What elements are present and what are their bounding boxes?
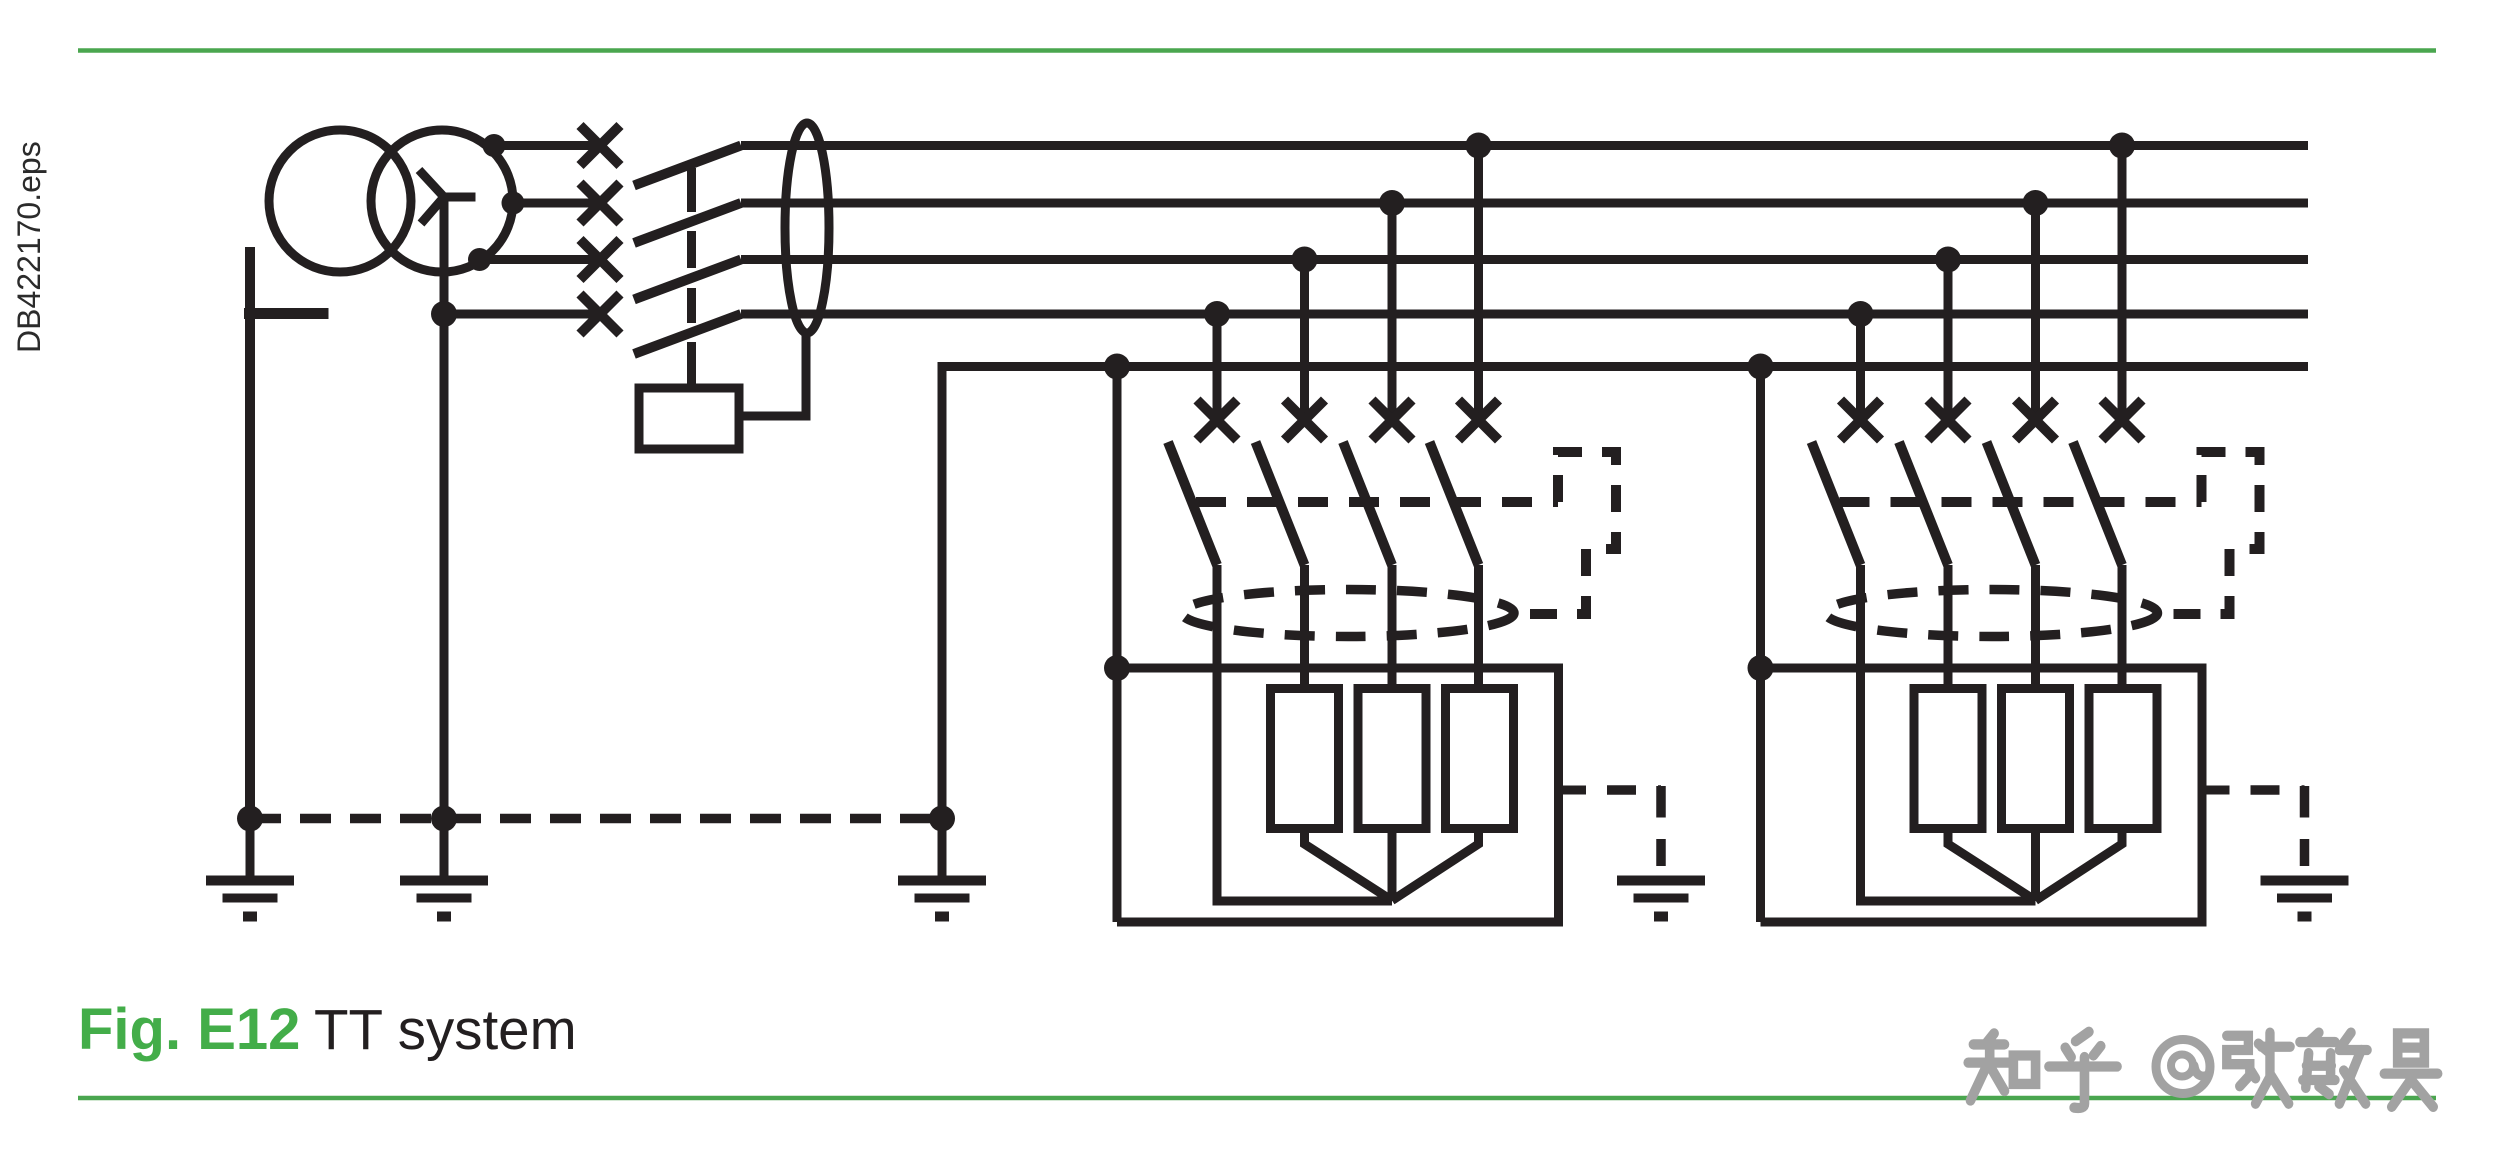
dashed earth lead horizontal xyxy=(1607,785,1661,795)
RCD toroid (dashed ellipse) xyxy=(1182,590,1514,637)
switch Q1 blade L3 xyxy=(634,260,741,300)
watermark glyph min xyxy=(2300,1033,2367,1104)
switch Q1 blade L2 xyxy=(634,203,741,243)
ground electrode PE xyxy=(898,819,986,917)
wire frame to earth stub xyxy=(1559,786,1587,795)
switch Q1 mechanical linkage xyxy=(687,168,696,388)
circuit breaker blade L1 xyxy=(1430,442,1479,565)
terminal dot phase L3 xyxy=(468,248,491,271)
wire N through RCD to load xyxy=(1217,565,1392,901)
junction dot tap L3 xyxy=(1292,247,1318,273)
load element R2 xyxy=(1358,689,1426,829)
svg-text:Fig. E12: Fig. E12 xyxy=(78,997,300,1062)
breaker terminal cross L2 xyxy=(1372,400,1412,440)
junction dot earth link left xyxy=(237,806,263,832)
wire distribution line L1 xyxy=(741,141,2308,150)
load element R3 xyxy=(1446,689,1514,829)
wire PE conductor xyxy=(942,367,2308,819)
green bottom rule xyxy=(78,1096,2436,1101)
ground electrode load xyxy=(1617,881,1705,917)
terminal dot phase L1 xyxy=(483,134,506,157)
wire drop L3 xyxy=(1300,260,1309,421)
earth terminal bar xyxy=(244,308,329,319)
junction dot PE to appliance frame xyxy=(1104,655,1130,681)
neutral star-point conductor xyxy=(440,197,449,819)
watermark glyph zhi xyxy=(1968,1033,2035,1100)
breaker terminal cross N xyxy=(1197,400,1237,440)
junction dot earth link neutral xyxy=(431,806,457,832)
circuit breaker blade L3 xyxy=(1256,442,1305,565)
cable / CT ellipse xyxy=(785,123,829,333)
dashed link trip to RCD toroid xyxy=(1521,452,1616,614)
link cross X L2 xyxy=(580,183,620,223)
terminal dot phase L2 xyxy=(502,192,525,215)
switch operating device box xyxy=(639,388,739,449)
breaker terminal cross L1 xyxy=(1459,400,1499,440)
ground electrode substation xyxy=(206,819,294,917)
wire L1 (transformer to link) xyxy=(494,141,600,150)
ground electrode neutral xyxy=(400,819,488,917)
junction dot tap L1 xyxy=(1466,133,1492,159)
switch Q1 blade L1 xyxy=(634,146,741,186)
load element R1 xyxy=(1271,689,1339,829)
wire drop N xyxy=(1213,314,1222,420)
junction dot tap L2 xyxy=(1379,190,1405,216)
feeder 2: circuit breaker + RCD + 3-phase load xyxy=(1748,133,2349,923)
substation earth conductor xyxy=(245,247,255,819)
svg-text:DB422170.eps: DB422170.eps xyxy=(11,141,47,353)
wire L1 through RCD to load xyxy=(1474,565,1483,684)
appliance frame box xyxy=(1117,668,1559,922)
switch Q1 blade N xyxy=(634,314,741,354)
wire L2 (transformer to link) xyxy=(513,199,600,208)
link cross X N xyxy=(580,294,620,334)
wire box to cable ellipse xyxy=(739,333,806,416)
wire drop L1 xyxy=(1474,146,1483,421)
PE drop conductor xyxy=(1113,367,1122,923)
junction dot tap N xyxy=(1204,301,1230,327)
watermark glyph hao xyxy=(2384,1033,2437,1106)
junction dot neutral / line N xyxy=(431,301,457,327)
wire L3 through RCD to load xyxy=(1300,565,1309,684)
wire L2 through RCD to load xyxy=(1388,565,1397,684)
wire N (transformer to link) xyxy=(444,310,600,319)
transformer T1 secondary winding xyxy=(371,130,513,272)
junction dot earth link PE xyxy=(929,806,955,832)
circuit breaker blade N xyxy=(1168,442,1217,565)
green top rule xyxy=(78,48,2436,53)
dashed earth bonding link xyxy=(250,814,942,824)
wye (star) symbol of secondary xyxy=(419,170,476,224)
transformer T1 primary winding xyxy=(269,130,411,272)
link cross X L1 xyxy=(580,126,620,166)
wire distribution line L3 xyxy=(741,255,2308,264)
breaker trip linkage dashed xyxy=(1196,497,1558,507)
watermark glyph at-sign xyxy=(2156,1040,2210,1094)
wire L3 (transformer to link) xyxy=(480,255,601,264)
junction dot PE tap xyxy=(1104,354,1130,380)
link cross X L3 xyxy=(580,240,620,280)
feeder 1: circuit breaker + RCD + 3-phase load xyxy=(1104,133,1705,923)
breaker terminal cross L3 xyxy=(1285,400,1325,440)
circuit breaker blade L2 xyxy=(1343,442,1392,565)
wire distribution line L2 xyxy=(741,199,2308,208)
watermark glyph zhang xyxy=(2227,1033,2290,1104)
star point chevron xyxy=(1305,833,1479,901)
wire drop L2 xyxy=(1388,203,1397,420)
wire distribution line N xyxy=(741,310,2308,319)
dashed earth lead vertical xyxy=(1656,786,1666,866)
watermark glyph hu xyxy=(2049,1032,2117,1108)
svg-text:TT system: TT system xyxy=(314,998,577,1061)
